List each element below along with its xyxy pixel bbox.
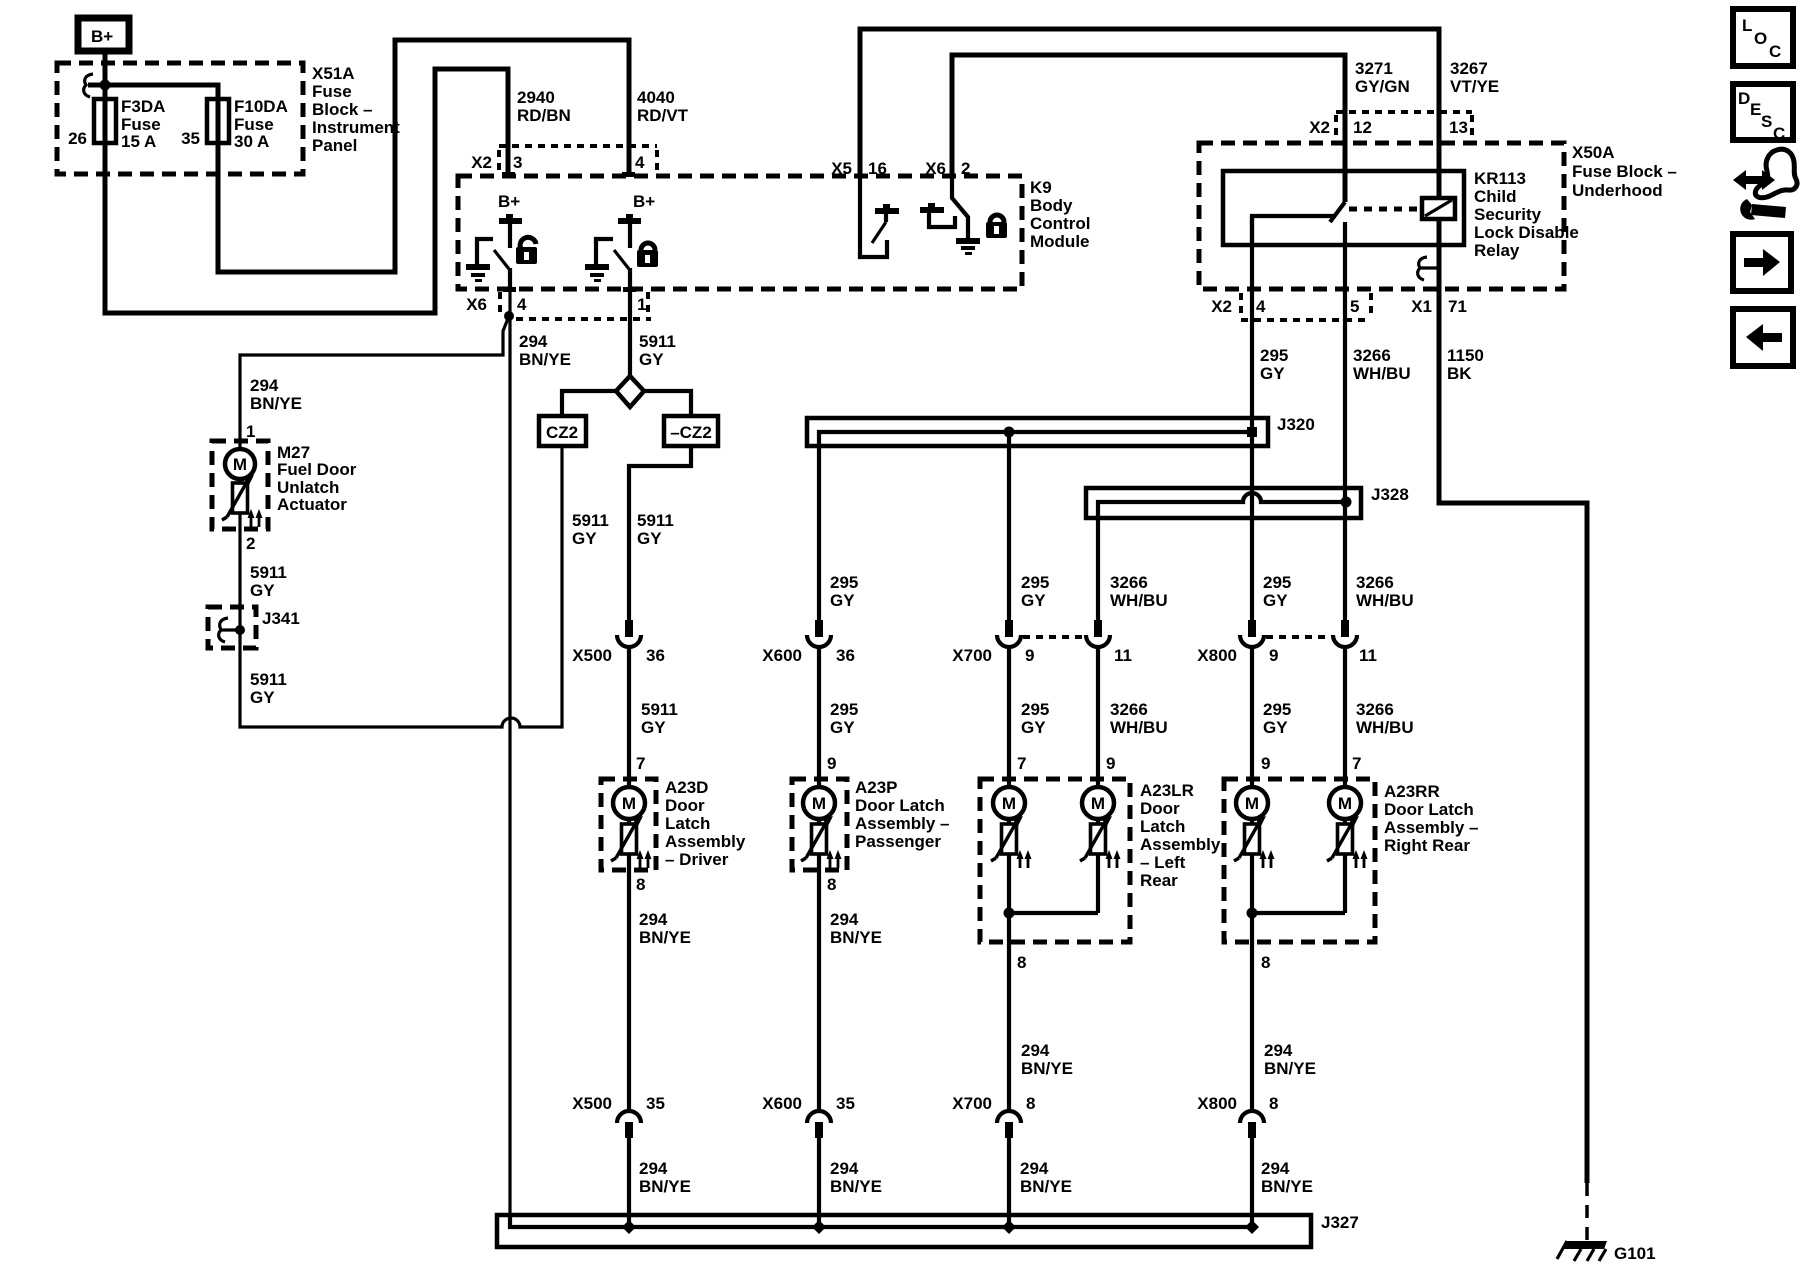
- svg-text:Control: Control: [1030, 214, 1090, 233]
- circuit 3267 VT/YE label: [1450, 59, 1499, 96]
- svg-text:A23RR: A23RR: [1384, 782, 1440, 801]
- svg-text:X2: X2: [1211, 297, 1232, 316]
- wire X700/8 to J327: [1007, 1138, 1011, 1227]
- svg-text:Rear: Rear: [1140, 871, 1178, 890]
- svg-text:11: 11: [1114, 646, 1132, 665]
- circuit 3266 WH/BU label above X700/11: [1110, 573, 1168, 610]
- svg-text:294: 294: [639, 1159, 668, 1178]
- circuit 294 BN/YE label below A23LR: [1021, 1041, 1073, 1078]
- svg-text:Passenger: Passenger: [855, 832, 941, 851]
- svg-text:GY: GY: [1021, 591, 1046, 610]
- svg-text:Latch: Latch: [665, 814, 710, 833]
- connector X2 of X50A (pins 12,13): [1309, 112, 1472, 140]
- svg-text:295: 295: [830, 573, 858, 592]
- svg-text:X700: X700: [952, 1094, 992, 1113]
- svg-text:1150: 1150: [1447, 346, 1484, 365]
- door latch A23D dashed box: [601, 779, 656, 870]
- svg-text:294: 294: [519, 332, 548, 351]
- svg-text:J328: J328: [1371, 485, 1409, 504]
- svg-text:D: D: [1738, 89, 1750, 108]
- svg-text:E: E: [1750, 100, 1761, 119]
- svg-text:X500: X500: [572, 1094, 612, 1113]
- B+ battery feed box: [78, 18, 129, 51]
- svg-text:Underhood: Underhood: [1572, 181, 1663, 200]
- svg-text:X2: X2: [1309, 118, 1330, 137]
- wire X500 to A23D to X500/35: [627, 645, 631, 1110]
- connector X2 of BCM (pins 3,4): [471, 146, 657, 177]
- svg-text:8: 8: [1261, 953, 1270, 972]
- svg-text:BN/YE: BN/YE: [639, 928, 691, 947]
- wire jumper inside A23RR: [1247, 908, 1346, 919]
- svg-text:2940: 2940: [517, 88, 555, 107]
- svg-text:F3DA: F3DA: [121, 97, 165, 116]
- svg-text:8: 8: [1026, 1094, 1035, 1113]
- svg-text:30 A: 30 A: [234, 132, 269, 151]
- svg-text:Child: Child: [1474, 187, 1517, 206]
- circuit 295 GY label below X700/9: [1021, 700, 1049, 737]
- splice clip in fuse block: [84, 74, 111, 97]
- svg-text:X600: X600: [762, 646, 802, 665]
- circuit 3266 WH/BU label below X800/11: [1356, 700, 1414, 737]
- svg-text:A23P: A23P: [855, 778, 898, 797]
- svg-text:GY: GY: [572, 529, 597, 548]
- circuit 294 BN/YE label below A23RR: [1264, 1041, 1316, 1078]
- connector X600 pin 35: [762, 1094, 855, 1138]
- circuit 5911 GY label at X6/1: [639, 332, 676, 369]
- svg-text:M: M: [1091, 794, 1105, 813]
- svg-text:2: 2: [246, 534, 255, 553]
- icon DESC box: [1733, 84, 1793, 143]
- door latch A23P dashed box: [792, 779, 847, 870]
- svg-text:9: 9: [1269, 646, 1278, 665]
- svg-text:5911: 5911: [641, 700, 678, 719]
- splice clip below relay coil: [1418, 257, 1439, 280]
- svg-text:G101: G101: [1614, 1244, 1656, 1263]
- svg-text:4: 4: [517, 295, 527, 314]
- svg-text:X6: X6: [925, 159, 946, 178]
- svg-text:4040: 4040: [637, 88, 675, 107]
- svg-text:Panel: Panel: [312, 136, 357, 155]
- svg-text:294: 294: [830, 910, 859, 929]
- svg-text:1: 1: [246, 422, 255, 441]
- svg-text:CZ2: CZ2: [546, 423, 578, 442]
- circuit 295 GY label below X600: [830, 700, 858, 737]
- circuit 294 BN/YE label above J327 col3: [1020, 1159, 1072, 1196]
- wire X800/8 to J327: [1250, 1138, 1254, 1227]
- svg-text:WH/BU: WH/BU: [1356, 718, 1414, 737]
- wire 5911 GY M27 return to CZ2 with hop over main vertical: [240, 446, 562, 727]
- svg-text:GY: GY: [639, 350, 664, 369]
- svg-text:Door: Door: [1140, 799, 1180, 818]
- svg-text:M: M: [1338, 794, 1352, 813]
- svg-text:Right Rear: Right Rear: [1384, 836, 1470, 855]
- svg-text:GY: GY: [830, 591, 855, 610]
- svg-text:GY: GY: [830, 718, 855, 737]
- connector X800 pin 8: [1197, 1094, 1278, 1138]
- circuit 294 BN/YE label at M27: [250, 376, 302, 413]
- svg-text:26: 26: [68, 129, 87, 148]
- door latch A23LR dashed box: [980, 779, 1130, 942]
- icon forward arrow box: [1733, 234, 1791, 291]
- svg-text:GY: GY: [250, 581, 275, 600]
- svg-text:A23D: A23D: [665, 778, 708, 797]
- circuit 5911 GY label below CZ2: [572, 511, 609, 548]
- svg-text:35: 35: [836, 1094, 855, 1113]
- relay KR113 label: [1474, 169, 1579, 260]
- svg-text:3: 3: [513, 153, 522, 172]
- motor A23D symbol: [611, 787, 652, 868]
- bus bar J320: [807, 418, 1268, 622]
- svg-text:36: 36: [836, 646, 855, 665]
- circuit 5911 GY label below J341: [250, 670, 287, 707]
- svg-text:3266: 3266: [1353, 346, 1391, 365]
- wire X800/9 to A23RR to X800/8: [1250, 645, 1254, 1110]
- circuit 5911 GY label below X500: [641, 700, 678, 737]
- svg-text:Instrument: Instrument: [312, 118, 400, 137]
- svg-text:5911: 5911: [637, 511, 674, 530]
- svg-text:K9: K9: [1030, 178, 1052, 197]
- fuse F10DA 30A: [207, 97, 288, 151]
- locked padlock icon in BCM: [986, 215, 1007, 238]
- svg-text:L: L: [1742, 16, 1752, 35]
- relay KR113 box: [1223, 171, 1464, 245]
- svg-text:8: 8: [827, 875, 836, 894]
- svg-text:A23LR: A23LR: [1140, 781, 1194, 800]
- svg-text:B+: B+: [498, 192, 520, 211]
- svg-text:GY/GN: GY/GN: [1355, 77, 1410, 96]
- svg-text:BN/YE: BN/YE: [250, 394, 302, 413]
- connector X700 pins 9 and 11: [952, 620, 1132, 665]
- svg-text:12: 12: [1353, 118, 1372, 137]
- svg-text:X2: X2: [471, 153, 492, 172]
- svg-text:J320: J320: [1277, 415, 1315, 434]
- svg-text:RD/VT: RD/VT: [637, 106, 689, 125]
- svg-text:9: 9: [827, 754, 836, 773]
- component CZ2 box: [539, 416, 586, 446]
- svg-text:– Driver: – Driver: [665, 850, 729, 869]
- motor A23RR left symbol: [1234, 787, 1275, 868]
- relay fixed contact to pin 4: [1252, 216, 1336, 245]
- svg-text:BN/YE: BN/YE: [1264, 1059, 1316, 1078]
- svg-text:3267: 3267: [1450, 59, 1488, 78]
- svg-text:Block –: Block –: [312, 100, 372, 119]
- svg-text:3266: 3266: [1356, 700, 1394, 719]
- motor A23LR left symbol: [991, 787, 1032, 868]
- svg-text:295: 295: [1260, 346, 1288, 365]
- wire X600 to A23P to X600/35: [817, 645, 821, 1110]
- svg-text:BN/YE: BN/YE: [830, 1177, 882, 1196]
- M27 Fuel Door Unlatch Actuator label: [277, 443, 357, 514]
- circuit 294 BN/YE label above J327 col4: [1261, 1159, 1313, 1196]
- svg-text:295: 295: [830, 700, 858, 719]
- ground G101 symbol: [1557, 1241, 1607, 1261]
- svg-text:X50A: X50A: [1572, 143, 1615, 162]
- svg-text:Assembly: Assembly: [1140, 835, 1221, 854]
- svg-text:5911: 5911: [572, 511, 609, 530]
- svg-text:3266: 3266: [1110, 700, 1148, 719]
- svg-text:J327: J327: [1321, 1213, 1359, 1232]
- svg-text:294: 294: [830, 1159, 859, 1178]
- circuit 294 BN/YE label at X6/4: [519, 332, 571, 369]
- svg-text:X1: X1: [1411, 297, 1432, 316]
- svg-text:BK: BK: [1447, 364, 1472, 383]
- circuit 294 BN/YE label below A23D: [639, 910, 691, 947]
- svg-text:X51A: X51A: [312, 64, 355, 83]
- svg-text:WH/BU: WH/BU: [1110, 718, 1168, 737]
- A23RR Door Latch Assembly Right Rear label: [1384, 782, 1479, 855]
- svg-text:Door: Door: [665, 796, 705, 815]
- svg-text:Latch: Latch: [1140, 817, 1185, 836]
- BCM internal switch for X6/2: [920, 176, 980, 255]
- svg-text:5911: 5911: [639, 332, 676, 351]
- svg-text:WH/BU: WH/BU: [1110, 591, 1168, 610]
- svg-text:WH/BU: WH/BU: [1356, 591, 1414, 610]
- node junction to M27 branch: [504, 311, 514, 321]
- wire X6/2 3271 GY/GN to relay switch: [952, 55, 1345, 202]
- A23P Door Latch Assembly Passenger label: [855, 778, 950, 851]
- svg-text:3266: 3266: [1110, 573, 1148, 592]
- svg-text:36: 36: [646, 646, 665, 665]
- svg-text:295: 295: [1263, 573, 1291, 592]
- actuator M27 dashed box: [212, 441, 268, 529]
- svg-text:9: 9: [1261, 754, 1270, 773]
- svg-text:294: 294: [250, 376, 279, 395]
- svg-text:VT/YE: VT/YE: [1450, 77, 1499, 96]
- svg-text:Lock Disable: Lock Disable: [1474, 223, 1579, 242]
- wire X5/16 3267 VT/YE to relay coil and 1150 BK to G101: [860, 29, 1439, 268]
- circuit 4040 RD/VT label: [637, 88, 689, 125]
- icon back arrow box: [1733, 309, 1793, 366]
- svg-text:BN/YE: BN/YE: [1021, 1059, 1073, 1078]
- splice J341 dashed box: [208, 607, 256, 648]
- circuit 294 BN/YE label below A23P: [830, 910, 882, 947]
- wire X800/11 to A23RR right motor: [1343, 645, 1347, 913]
- svg-text:1: 1: [637, 295, 646, 314]
- svg-text:X600: X600: [762, 1094, 802, 1113]
- svg-text:16: 16: [868, 159, 887, 178]
- wire X700/9 to A23LR to X700/8: [1007, 645, 1011, 1110]
- wire 5911 GY X6/1 to splice diamond: [628, 289, 632, 376]
- svg-text:Door Latch: Door Latch: [1384, 800, 1474, 819]
- svg-text:BN/YE: BN/YE: [1261, 1177, 1313, 1196]
- fuse block X50A label: [1572, 143, 1677, 200]
- fuse block X51A dashed box: [57, 63, 303, 174]
- bus bar J328: [1086, 488, 1361, 622]
- circuit 5911 GY label below M27: [250, 563, 287, 600]
- fuse F3DA 15A: [94, 97, 165, 151]
- svg-text:Door Latch: Door Latch: [855, 796, 945, 815]
- svg-text:GY: GY: [1263, 718, 1288, 737]
- svg-text:GY: GY: [250, 688, 275, 707]
- circuit 3266 WH/BU label upper: [1353, 346, 1411, 383]
- component minus CZ2 box: [664, 416, 718, 446]
- connector X6 of BCM (pins 4,1): [466, 287, 651, 319]
- svg-text:Fuse Block –: Fuse Block –: [1572, 162, 1677, 181]
- svg-text:5911: 5911: [250, 670, 287, 689]
- svg-text:Assembly: Assembly: [665, 832, 746, 851]
- wire 1150 BK continuation: [1439, 268, 1587, 1183]
- svg-text:BN/YE: BN/YE: [830, 928, 882, 947]
- wire B+ to F3DA fuse to 2940 RD/BN circuit: [105, 54, 508, 313]
- BCM K9 dashed box: [458, 176, 1022, 289]
- door latch A23RR dashed box: [1224, 779, 1375, 942]
- svg-text:X500: X500: [572, 646, 612, 665]
- wire X700/11 to A23LR right motor: [1096, 645, 1100, 913]
- svg-text:9: 9: [1025, 646, 1034, 665]
- circuit 5911 GY label below minus CZ2: [637, 511, 674, 548]
- svg-text:Fuel Door: Fuel Door: [277, 460, 357, 479]
- svg-text:F10DA: F10DA: [234, 97, 288, 116]
- svg-text:5: 5: [1350, 297, 1359, 316]
- svg-text:4: 4: [635, 153, 645, 172]
- svg-text:O: O: [1754, 29, 1767, 48]
- node B+ internal left: [498, 192, 522, 248]
- svg-text:294: 294: [1020, 1159, 1049, 1178]
- svg-text:3266: 3266: [1356, 573, 1394, 592]
- relay switch blade: [1330, 202, 1345, 222]
- svg-text:Body: Body: [1030, 196, 1073, 215]
- wire dashed lead to G101: [1585, 1183, 1589, 1240]
- circuit 3271 GY/GN label: [1355, 59, 1410, 96]
- circuit 3266 WH/BU label above X800/11: [1356, 573, 1414, 610]
- BCM internal driver switch left (fuel door): [466, 239, 510, 289]
- svg-text:7: 7: [1352, 754, 1361, 773]
- node B+ internal right: [618, 192, 655, 248]
- svg-text:8: 8: [1017, 953, 1026, 972]
- svg-text:295: 295: [1021, 700, 1049, 719]
- svg-text:WH/BU: WH/BU: [1353, 364, 1411, 383]
- svg-text:15 A: 15 A: [121, 132, 156, 151]
- svg-text:RD/BN: RD/BN: [517, 106, 571, 125]
- circuit 3266 WH/BU label below X700/11: [1110, 700, 1168, 737]
- K9 Body Control Module label: [1030, 178, 1090, 251]
- svg-text:–CZ2: –CZ2: [670, 423, 712, 442]
- svg-text:BN/YE: BN/YE: [639, 1177, 691, 1196]
- fuse block X50A underhood dashed box: [1199, 143, 1564, 289]
- svg-text:GY: GY: [1260, 364, 1285, 383]
- wire X600/35 to J327: [817, 1138, 821, 1227]
- svg-text:Assembly –: Assembly –: [855, 814, 950, 833]
- connector X700 pin 8: [952, 1094, 1035, 1138]
- svg-text:X700: X700: [952, 646, 992, 665]
- svg-text:11: 11: [1359, 646, 1377, 665]
- wire 5911 GY minus CZ2 to X500/36: [629, 446, 691, 622]
- svg-text:4: 4: [1256, 297, 1266, 316]
- svg-text:– Left: – Left: [1140, 853, 1186, 872]
- circuit 2940 RD/BN label: [517, 88, 571, 125]
- pin labels X5 16 on BCM top: [831, 159, 887, 178]
- svg-text:M: M: [233, 455, 247, 474]
- svg-text:295: 295: [1263, 700, 1291, 719]
- A23LR Door Latch Assembly Left Rear label: [1140, 781, 1221, 890]
- svg-text:X800: X800: [1197, 1094, 1237, 1113]
- wire 295 GY relay pin4 to J320 to X800/9: [1250, 216, 1254, 622]
- relay coil dashed actuation link: [1349, 207, 1421, 212]
- splice diamond: [616, 376, 644, 407]
- svg-text:GY: GY: [637, 529, 662, 548]
- svg-text:2: 2: [961, 159, 970, 178]
- connector X1 pin 71 labels: [1411, 297, 1467, 316]
- svg-text:294: 294: [1261, 1159, 1290, 1178]
- motor A23P symbol: [801, 787, 842, 868]
- A23D Door Latch Assembly Driver label: [665, 778, 746, 869]
- svg-text:8: 8: [636, 875, 645, 894]
- icon LOC box: [1733, 9, 1793, 66]
- svg-text:BN/YE: BN/YE: [1020, 1177, 1072, 1196]
- connector X2 of X50A (pins 4,5): [1211, 293, 1371, 320]
- circuit 295 GY label upper: [1260, 346, 1288, 383]
- svg-text:X6: X6: [466, 295, 487, 314]
- connector X800 pins 9 and 11: [1197, 620, 1377, 665]
- relay coil box: [1422, 198, 1455, 219]
- svg-text:J341: J341: [262, 609, 300, 628]
- svg-text:Actuator: Actuator: [277, 495, 347, 514]
- svg-text:294: 294: [1264, 1041, 1293, 1060]
- connector X500 pin 35: [572, 1094, 665, 1138]
- svg-text:35: 35: [646, 1094, 665, 1113]
- BCM internal driver switch right (door lock): [585, 239, 630, 289]
- motor M27 symbol: [222, 449, 263, 527]
- wire junction branch to F10DA fuse to 4040 RD/VT circuit: [88, 40, 629, 272]
- circuit 294 BN/YE label above J327 col2: [830, 1159, 882, 1196]
- wire diamond to CZ2: [562, 391, 616, 416]
- svg-text:Relay: Relay: [1474, 241, 1520, 260]
- svg-text:GY: GY: [1263, 591, 1288, 610]
- pin labels X6 2 on BCM top: [925, 159, 970, 178]
- motor A23LR right symbol: [1080, 787, 1121, 868]
- wire 294 BN/YE branch to M27: [240, 316, 509, 449]
- motor A23RR right symbol: [1327, 787, 1368, 868]
- svg-text:35: 35: [181, 129, 200, 148]
- circuit 294 BN/YE label above J327 col1: [639, 1159, 691, 1196]
- locked padlock icon: [637, 243, 658, 267]
- splice clip J341: [219, 618, 245, 642]
- svg-text:C: C: [1773, 124, 1785, 143]
- svg-text:7: 7: [636, 754, 645, 773]
- svg-text:M: M: [1002, 794, 1016, 813]
- wire X500/35 to J327: [627, 1138, 631, 1227]
- connector X600 pin 36: [762, 620, 855, 665]
- svg-text:M: M: [1245, 794, 1259, 813]
- svg-text:B+: B+: [91, 27, 113, 46]
- bus bar J327: [497, 1215, 1311, 1247]
- svg-text:3271: 3271: [1355, 59, 1393, 78]
- BCM internal switch for X5/16: [860, 176, 899, 257]
- wire 3266 WH/BU relay to J328 to X800/11: [1343, 222, 1347, 622]
- circuit 295 GY label above X600: [830, 573, 858, 610]
- circuit 295 GY label above X800/9: [1263, 573, 1291, 610]
- circuit 295 GY label below X800/9: [1263, 700, 1291, 737]
- wire jumper inside A23LR: [1004, 908, 1099, 919]
- svg-text:S: S: [1761, 112, 1772, 131]
- svg-text:X800: X800: [1197, 646, 1237, 665]
- wire diamond to minus CZ2: [644, 391, 691, 416]
- svg-text:BN/YE: BN/YE: [519, 350, 571, 369]
- fuse block X51A label: [312, 64, 400, 155]
- svg-text:7: 7: [1017, 754, 1026, 773]
- svg-text:M: M: [812, 794, 826, 813]
- svg-text:294: 294: [1021, 1041, 1050, 1060]
- icon wrench with arrows: [1733, 149, 1797, 220]
- svg-text:294: 294: [639, 910, 668, 929]
- svg-text:X5: X5: [831, 159, 852, 178]
- svg-text:295: 295: [1021, 573, 1049, 592]
- svg-text:Security: Security: [1474, 205, 1542, 224]
- svg-text:KR113: KR113: [1474, 169, 1526, 188]
- svg-text:Fuse: Fuse: [312, 82, 352, 101]
- svg-text:B+: B+: [633, 192, 655, 211]
- svg-text:71: 71: [1448, 297, 1467, 316]
